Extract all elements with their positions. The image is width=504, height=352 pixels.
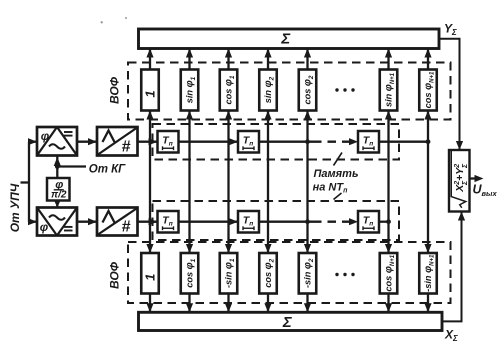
wire PD1 to ADC1 with arrow [77, 138, 97, 145]
wire column 3 vertical through delay line taps [225, 111, 232, 254]
dashed enclosure ВОФ bottom (weighting unit) [128, 242, 451, 303]
svg-text:Tп: Tп [363, 134, 373, 147]
wire input От УПЧ vertical trunk [21, 142, 30, 222]
svg-text:-sin φN+1: -sin φN+1 [423, 254, 436, 292]
wire column 7 vertical through delay line taps [424, 111, 431, 254]
label Uвых (output voltage) [473, 183, 498, 199]
wire T3 output to last column node [379, 141, 428, 143]
svg-text:π/2: π/2 [51, 190, 67, 201]
wire input to PD1 with arrow [28, 138, 37, 145]
svg-text:Tп: Tп [162, 134, 172, 147]
wire T4 output to T5 with arrow [179, 218, 239, 225]
phase detector PD1 (top mixer φ ~ =) [37, 127, 77, 156]
multiplier M9 bottom weight cos phi1 [181, 253, 199, 294]
multiplier M5 top weight cos phi2 [299, 70, 317, 111]
wire XΣ from bottom Σ to sqrt block with arrow [442, 212, 465, 322]
svg-text:φ: φ [40, 220, 49, 234]
wire column 6 vertical through delay line taps [385, 111, 392, 254]
wire column 4 top box to top Σ with arrow [264, 49, 271, 70]
wire КГ input to PD1 bottom with arrow [54, 156, 61, 179]
delay element T6 (Tп) bottom row [358, 211, 379, 233]
multiplier M7 top weight cos phiN+1 [419, 70, 437, 111]
svg-text:sin φ1: sin φ1 [185, 76, 198, 103]
wire column 2 bottom box to bottom Σ with arrow [186, 294, 193, 313]
wire column 6 top box to top Σ with arrow [385, 49, 392, 70]
label node XΣ [444, 328, 458, 344]
wire ADC1 output to delay T1 with arrow [138, 138, 158, 145]
wire column 1 vertical through delay line taps [146, 111, 153, 254]
delay element T5 (Tп) bottom row [238, 211, 259, 233]
svg-text:cos φ1: cos φ1 [185, 258, 198, 287]
wire column 1 bottom box to bottom Σ with arrow [146, 294, 153, 313]
wire column 4 bottom box to bottom Σ with arrow [264, 294, 271, 313]
svg-text:ВОФ: ВОФ [108, 261, 122, 289]
svg-text:sin φN+1: sin φN+1 [384, 72, 397, 107]
phase detector PD2 (bottom mixer φ ~ =) [37, 208, 77, 236]
junction node column 5 x bottom bus [305, 219, 310, 224]
wire phase shifter output to PD2 with arrow [54, 201, 60, 208]
svg-text:Uвых: Uвых [473, 183, 498, 199]
wire input to PD2 with arrow [28, 218, 37, 225]
junction node column 8 x top bus [426, 139, 431, 144]
ADC U3 (analog-digital converter top) [97, 127, 138, 156]
wire T1 output to T2 with arrow [179, 138, 239, 145]
svg-text:-sin φ2: -sin φ2 [303, 258, 316, 288]
multiplier M3 top weight cos phi1 [220, 70, 238, 111]
svg-text:#: # [122, 219, 131, 236]
junction node column 7 x bottom bus [386, 219, 391, 224]
callout slash to bottom memory box [334, 193, 342, 200]
wire column 5 vertical through delay line taps [304, 111, 311, 254]
wire column 7 bottom box to bottom Σ with arrow [424, 294, 431, 313]
label От УПЧ (from IF amplifier) [8, 183, 22, 232]
svg-text:Tп: Tп [363, 214, 373, 227]
label От КГ (from crystal oscillator) [89, 164, 126, 176]
delay element T4 (Tп) bottom row [158, 211, 179, 233]
svg-text:XΣ: XΣ [444, 328, 458, 344]
svg-text:Tп: Tп [162, 214, 172, 227]
dashed enclosure memory top (Память на NTп) [153, 124, 400, 160]
svg-text:1: 1 [143, 274, 158, 281]
wire column 5 bottom box to bottom Σ with arrow [304, 294, 311, 313]
svg-text:cos φ2: cos φ2 [263, 258, 276, 287]
junction node КГ tee [55, 164, 60, 169]
svg-text:φ: φ [41, 129, 50, 143]
svg-text:cos φN+1: cos φN+1 [423, 71, 436, 108]
wire T6 output to column 7 node [379, 221, 389, 223]
svg-text:Σ: Σ [280, 31, 291, 48]
multiplier M13 bottom weight cos phiN+1 [380, 253, 398, 294]
multiplier M10 bottom weight -sin phi1 [220, 253, 238, 294]
multiplier M6 top weight sin phiN+1 [380, 70, 398, 111]
label ВОФ bottom [108, 261, 122, 289]
summator U1 top Σ accumulator [139, 29, 440, 49]
svg-text:cos φ1: cos φ1 [224, 75, 237, 104]
wire column 2 top box to top Σ with arrow [186, 49, 193, 70]
summator U2 bottom Σ accumulator [139, 312, 443, 331]
multiplier M4 top weight sin phi2 [259, 70, 277, 111]
wire column 5 top box to top Σ with arrow [304, 49, 311, 70]
label Память на NTп [313, 168, 359, 195]
wire PD2 to ADC2 with arrow [77, 218, 97, 225]
wire column 2 vertical through delay line taps [186, 111, 193, 254]
wire column 7 top box to top Σ with arrow [424, 49, 431, 70]
wire column 1 top box to top Σ with arrow [146, 49, 153, 70]
multiplier M11 bottom weight cos phi2 [259, 253, 277, 294]
wire T2 output toward T3 (broken/omitted section) with arrow [259, 138, 358, 145]
ADC U4 (analog-digital converter bottom) [97, 208, 138, 236]
svg-text:От КГ: От КГ [89, 164, 126, 176]
multiplier M8 bottom weight 1 [141, 253, 159, 294]
junction node column 5 x top bus [305, 139, 310, 144]
delay element T3 (Tп) top row [358, 131, 379, 153]
svg-text:ВОФ: ВОФ [108, 76, 122, 104]
wire T5 output toward T6 (broken/omitted section) with arrow [259, 218, 358, 225]
svg-text:на NTп: на NTп [313, 182, 348, 195]
wire От КГ horizontal stub [57, 165, 86, 167]
wire ADC2 output to delay T4 with arrow [138, 218, 158, 225]
svg-text:#: # [122, 139, 131, 156]
ellipsis dots top row [335, 88, 354, 91]
dashed enclosure ВОФ top (weighting unit) [128, 63, 451, 120]
svg-text:cos φ2: cos φ2 [303, 75, 316, 104]
svg-text:1: 1 [143, 90, 158, 97]
sqrt block U6 (√(XΣ²+YΣ²) magnitude) [449, 150, 470, 212]
svg-text:Tп: Tп [243, 214, 253, 227]
label ВОФ top [108, 76, 122, 104]
label node YΣ [444, 22, 457, 38]
wire column 3 bottom box to bottom Σ with arrow [225, 294, 232, 313]
callout slash to top memory box [334, 153, 343, 166]
multiplier M1 top weight 1 [141, 70, 159, 111]
svg-text:Σ: Σ [282, 314, 293, 331]
svg-text:Память: Память [314, 168, 359, 180]
multiplier M12 bottom weight -sin phi2 [299, 253, 317, 294]
ellipsis dots bottom row [335, 273, 354, 276]
svg-text:-sin φ1: -sin φ1 [224, 258, 237, 288]
svg-text:sin φ2: sin φ2 [263, 76, 276, 103]
wire column 3 top box to top Σ with arrow [225, 49, 232, 70]
dashed enclosure memory bottom (Память на NTп) [153, 201, 400, 240]
wire output Uвых with arrow [470, 175, 484, 182]
delay element T2 (Tп) top row [238, 131, 259, 153]
phase shifter U5 (φ π/2) [47, 178, 70, 201]
multiplier M2 top weight sin phi1 [181, 70, 199, 111]
wire YΣ from top Σ to sqrt block with arrow [439, 39, 463, 150]
svg-text:cos φN+1: cos φN+1 [384, 254, 397, 291]
wire column 4 vertical through delay line taps [264, 111, 271, 254]
svg-text:YΣ: YΣ [444, 22, 457, 38]
svg-text:Tп: Tп [243, 134, 253, 147]
svg-text:От УПЧ: От УПЧ [8, 183, 22, 232]
multiplier M14 bottom weight -sin phiN+1 [419, 253, 437, 294]
delay element T1 (Tп) top row [158, 131, 179, 153]
wire column 6 bottom box to bottom Σ with arrow [385, 294, 392, 313]
svg-text:X2Σ+Y2Σ: X2Σ+Y2Σ [454, 163, 469, 193]
